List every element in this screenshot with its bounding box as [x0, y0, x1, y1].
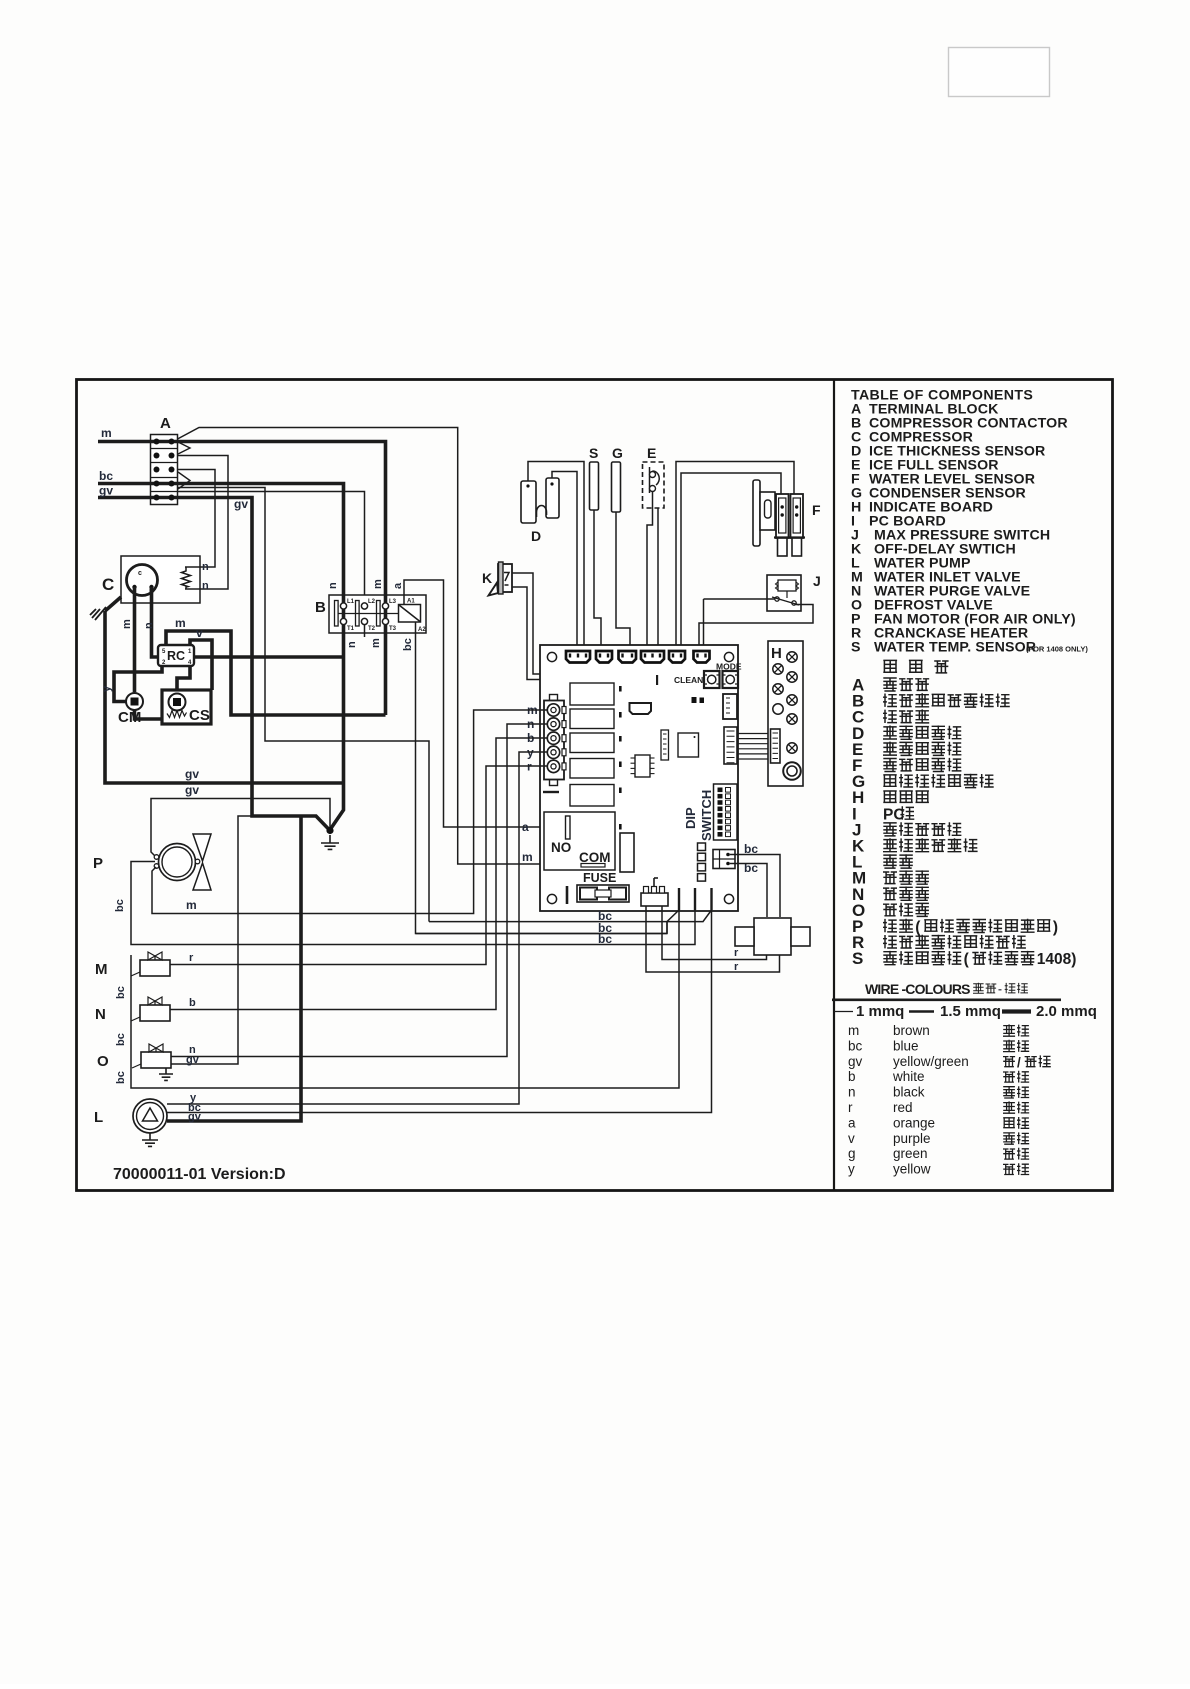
- svg-text:green: green: [893, 1146, 928, 1161]
- chinese component legend: [883, 660, 897, 673]
- wire bc (pump to PCB pin): [167, 910, 712, 1113]
- water purge N valve: [131, 997, 170, 1021]
- svg-text:H: H: [771, 645, 782, 662]
- PCB NO/COM relay: [544, 812, 615, 870]
- svg-text:C: C: [102, 575, 114, 594]
- wire bc (PCB to heater plug): [730, 855, 780, 918]
- svg-text:K: K: [482, 570, 492, 586]
- svg-text:(: (: [915, 919, 921, 936]
- svg-text:g: g: [848, 1146, 856, 1161]
- wire a (coil A1 to PC board NO): [404, 580, 566, 827]
- svg-text:P: P: [93, 855, 103, 872]
- svg-text:DIP: DIP: [683, 807, 698, 829]
- svg-text:bc: bc: [115, 986, 127, 999]
- PCB 5-pin connector: [544, 695, 566, 786]
- svg-text:m: m: [372, 579, 384, 589]
- svg-text:n: n: [202, 580, 209, 592]
- svg-text:bc: bc: [99, 469, 113, 483]
- svg-text:F: F: [812, 502, 821, 518]
- FUSE: [567, 871, 629, 904]
- svg-text:gv: gv: [234, 497, 248, 511]
- wire (K to PC board aux connector): [512, 573, 645, 703]
- svg-text:bc: bc: [115, 1033, 127, 1046]
- svg-text:RC: RC: [167, 649, 185, 663]
- svg-text:(FOR 1408 ONLY): (FOR 1408 ONLY): [1026, 645, 1088, 654]
- wire bc (coil A2 down to bc bus): [416, 622, 668, 934]
- ground at compressor: [105, 597, 121, 611]
- wire gv (pump to ground bus): [167, 816, 301, 1121]
- svg-text:COM: COM: [579, 850, 611, 865]
- svg-text:S: S: [589, 445, 598, 461]
- svg-text:a: a: [848, 1115, 856, 1130]
- wire n (O valve to PCB pin n): [171, 724, 547, 1057]
- svg-text:black: black: [893, 1085, 925, 1100]
- wire gv thin (fan to ground node): [151, 799, 330, 858]
- wire m (RC to m-bus): [166, 631, 386, 715]
- wire r2 (plug to PCB comp): [646, 906, 780, 972]
- wire r (M valve to PCB pin r): [170, 766, 547, 965]
- svg-text:1.5 mmq: 1.5 mmq: [940, 1003, 1001, 1020]
- svg-text:L2: L2: [368, 599, 376, 605]
- off-delay switch K: [482, 562, 512, 596]
- svg-text:brown: brown: [893, 1023, 930, 1038]
- svg-text:r: r: [734, 961, 739, 973]
- svg-text:r: r: [848, 1100, 853, 1115]
- svg-text:L: L: [94, 1109, 103, 1126]
- svg-text:gv: gv: [185, 767, 199, 781]
- PCB pad column: [698, 843, 706, 881]
- water pump L: [94, 1099, 167, 1133]
- wire v (RC pin1 to CS box): [190, 640, 212, 690]
- svg-text:T1: T1: [347, 626, 355, 632]
- svg-text:CS: CS: [189, 707, 210, 724]
- svg-text:m: m: [121, 619, 133, 629]
- svg-text:m: m: [522, 850, 533, 864]
- wire (compressor pin to relay RC): [152, 587, 161, 657]
- wire (RC pin2 to CM): [114, 666, 162, 702]
- svg-text:L1: L1: [347, 599, 355, 605]
- max pressure switch J: [767, 573, 821, 611]
- wire (T2 stub): [364, 625, 366, 637]
- svg-text:a: a: [392, 582, 404, 589]
- ground below O valve: [159, 1068, 173, 1080]
- contactor coil A1-A2: [399, 599, 427, 634]
- svg-text:T3: T3: [389, 626, 397, 632]
- svg-text:70000011-01 Version:D: 70000011-01 Version:D: [113, 1166, 286, 1183]
- svg-text:bc: bc: [598, 932, 612, 946]
- svg-text:FUSE: FUSE: [583, 871, 616, 885]
- wire bc1 below PCB: [429, 910, 712, 922]
- wire y (pump to PCB pin y): [167, 752, 547, 1104]
- wire m feed (mains to terminal A): [98, 440, 152, 444]
- svg-text:/: /: [1017, 1055, 1021, 1070]
- top-right revision box: [949, 48, 1050, 97]
- wire bc feed: [98, 482, 152, 486]
- svg-text:gv: gv: [848, 1054, 863, 1069]
- svg-text:bc: bc: [115, 1071, 127, 1084]
- wire bc through pole1: [342, 595, 346, 633]
- svg-text:white: white: [892, 1069, 925, 1084]
- svg-text:N: N: [95, 1006, 106, 1023]
- svg-text:yellow/green: yellow/green: [893, 1054, 969, 1069]
- svg-text:v: v: [196, 626, 203, 640]
- terminal dots on A: [154, 439, 175, 501]
- PCB top connectors: [566, 651, 710, 663]
- svg-text:CLEAN: CLEAN: [674, 675, 703, 685]
- PCB aux header: [723, 694, 737, 719]
- svg-text:gv: gv: [99, 484, 113, 498]
- svg-text:D: D: [531, 528, 541, 544]
- svg-text:O: O: [97, 1053, 109, 1070]
- overload protector CS: [162, 690, 211, 724]
- svg-text:blue: blue: [893, 1038, 919, 1053]
- water level sensor F: [753, 480, 821, 556]
- svg-text:red: red: [893, 1100, 913, 1115]
- svg-text:A: A: [160, 415, 171, 432]
- svg-text:): ): [1053, 919, 1058, 936]
- ground node junction: [326, 827, 333, 834]
- wire bc thin (A row4 to contactor A2 bus): [178, 488, 430, 922]
- PCB ribbon connector: [724, 727, 737, 764]
- wire gv thick (compressor ground run down-left): [105, 611, 344, 783]
- wire bc2 (PCB to heater plug): [730, 864, 767, 918]
- svg-text:J: J: [813, 573, 821, 589]
- wire m (A to contactor L3): [152, 442, 386, 716]
- ribbon cable to indicate board: [737, 734, 771, 760]
- svg-text:y: y: [101, 685, 113, 692]
- svg-text:T2: T2: [368, 626, 376, 632]
- svg-text:bc: bc: [848, 1038, 863, 1053]
- svg-text:1 mmq: 1 mmq: [856, 1003, 904, 1020]
- wire (E to PCB conn4 b): [657, 508, 659, 652]
- svg-text:B: B: [315, 599, 326, 616]
- svg-text:m: m: [848, 1023, 859, 1038]
- svg-text:2.0 mmq: 2.0 mmq: [1036, 1003, 1097, 1020]
- svg-text:SWITCH: SWITCH: [699, 790, 714, 841]
- wire (J to PCB conn6): [704, 598, 776, 600]
- wire gv (O valve to ground bus): [171, 816, 252, 1064]
- svg-text:m: m: [175, 616, 186, 630]
- svg-text:r: r: [189, 952, 194, 964]
- PCB IC: [631, 755, 655, 777]
- svg-text:y: y: [848, 1162, 855, 1177]
- wire (F probe to PCB conn5 b): [681, 473, 781, 652]
- svg-text:NO: NO: [551, 840, 571, 855]
- svg-text:c: c: [138, 570, 142, 577]
- wire (F probe to PCB conn5): [676, 462, 794, 653]
- svg-text:n: n: [848, 1085, 856, 1100]
- svg-text:b: b: [848, 1069, 856, 1084]
- wire (G to PCB conn3): [616, 512, 630, 652]
- svg-text:orange: orange: [893, 1115, 935, 1130]
- svg-text:G: G: [612, 445, 623, 461]
- fan motor P: [93, 834, 211, 890]
- wire gv (A to ground node): [152, 498, 329, 830]
- PCB bc output connector: [713, 850, 735, 869]
- PCB relays: [570, 683, 622, 830]
- wire to COM (from A top, thin): [178, 428, 582, 865]
- svg-text:n: n: [202, 561, 209, 573]
- svg-text:WATER TEMP. SENSOR: WATER TEMP. SENSOR: [874, 640, 1036, 656]
- svg-text:S: S: [852, 949, 863, 968]
- svg-text:I: I: [655, 672, 659, 689]
- wire (K to PC board aux connector 2): [512, 587, 633, 703]
- small dash: [543, 791, 559, 793]
- start relay CM: [118, 693, 162, 726]
- wire n (A row2 to crankcase heater): [178, 456, 229, 590]
- wire bc (A through contactor pole 1 to ground node): [152, 484, 344, 830]
- crankcase heater plug R: [735, 918, 810, 955]
- svg-text:(: (: [964, 951, 970, 968]
- relay RC: [158, 645, 194, 666]
- PCB jumper pads: [692, 697, 697, 703]
- PCB bottom pins: [678, 888, 680, 910]
- wire gv feed: [98, 496, 152, 500]
- PCB vertical component: [620, 833, 634, 872]
- svg-text:a: a: [522, 820, 529, 834]
- svg-text:purple: purple: [893, 1131, 931, 1146]
- svg-text:gv: gv: [186, 1054, 200, 1066]
- wire (RC pin4 to CS): [177, 666, 190, 693]
- wire (RC pin1 to contactor T1): [194, 655, 344, 659]
- wire (compressor pin to start relay CM): [133, 587, 137, 692]
- svg-text:E: E: [647, 445, 656, 461]
- svg-text:CM: CM: [118, 709, 141, 726]
- defrost O valve: [132, 1044, 171, 1068]
- svg-text:bc: bc: [114, 899, 126, 912]
- PCB aux connector (from K): [630, 703, 652, 714]
- svg-text:n: n: [143, 622, 155, 629]
- wire bc3 below PCB (fan): [131, 862, 695, 945]
- svg-text:r: r: [734, 947, 739, 959]
- svg-text:bc: bc: [402, 638, 414, 651]
- svg-text:m: m: [186, 898, 197, 912]
- ice thickness sensor D: [521, 478, 559, 544]
- compressor C: [102, 556, 200, 603]
- wire b (N valve to PCB pin b): [170, 738, 547, 1010]
- svg-text:b: b: [189, 997, 196, 1009]
- svg-text:v: v: [848, 1131, 855, 1146]
- svg-text:-: -: [998, 982, 1002, 996]
- compressor contactor B: [315, 595, 426, 633]
- wire (E to PCB conn4): [647, 492, 653, 653]
- terminal block A: [151, 415, 178, 505]
- svg-text:gv: gv: [185, 783, 199, 797]
- svg-text:yellow: yellow: [893, 1162, 931, 1177]
- wire m through pole3: [384, 595, 388, 633]
- wire r (plug to PCB comp): [662, 906, 767, 960]
- DIP SWITCH: [683, 784, 737, 841]
- svg-text:WIRE -COLOURS: WIRE -COLOURS: [865, 981, 970, 997]
- wire (S to PCB conn2): [594, 510, 601, 652]
- svg-text:S: S: [851, 640, 860, 656]
- H board ribbon connector: [771, 729, 781, 763]
- PCB vertical IC: [661, 730, 669, 760]
- crankcase heater R (resistor inside C box): [182, 567, 191, 589]
- svg-text:gv: gv: [188, 1111, 202, 1123]
- wire (J right contact to PCB conn6): [699, 605, 813, 652]
- svg-text:n: n: [346, 641, 358, 648]
- svg-text:1408): 1408): [1037, 951, 1077, 968]
- wire bc2 below PCB: [416, 933, 668, 935]
- PCB microcontroller: [678, 733, 699, 757]
- svg-text:n: n: [327, 582, 339, 589]
- jumper links on terminal block A: [178, 442, 190, 489]
- wire (D to PCB conn1): [528, 462, 584, 653]
- svg-text:A2: A2: [418, 627, 426, 633]
- wire to contactor L2: [178, 492, 365, 603]
- svg-text:A1: A1: [407, 599, 415, 605]
- svg-text:m: m: [370, 638, 382, 648]
- wire n (A row3 to crankcase heater): [178, 470, 216, 568]
- PC board I: [540, 645, 738, 911]
- PCB bottom 3-pin component: [641, 878, 668, 906]
- contactor poles: [335, 599, 399, 632]
- wire (D to PCB conn1 b): [552, 472, 577, 653]
- svg-text:M: M: [95, 961, 108, 978]
- wire bc (valves bus to PCB): [131, 910, 679, 1088]
- indicate board H: [768, 641, 803, 786]
- wire m (fan to PCB pin m): [152, 710, 547, 914]
- water inlet M valve: [131, 952, 170, 976]
- ice full sensor E: [643, 445, 665, 508]
- svg-text:m: m: [101, 426, 112, 440]
- svg-text:L3: L3: [389, 599, 397, 605]
